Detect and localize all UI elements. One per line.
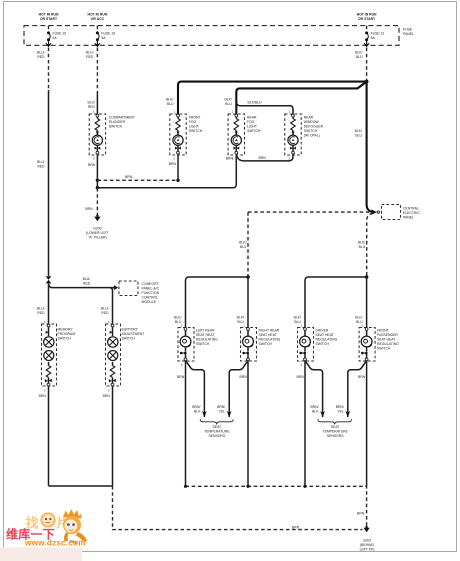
svg-text:SWITCH: SWITCH [304,129,318,133]
svg-text:LEFT KP): LEFT KP) [360,548,375,552]
svg-text:SWITCH: SWITCH [259,342,273,346]
svg-text:FRONT: FRONT [189,116,201,120]
svg-text:BRN: BRN [88,163,96,167]
svg-text:BRN: BRN [240,375,248,379]
svg-text:BLU/: BLU/ [87,100,95,104]
svg-text:REAR: REAR [247,116,257,120]
svg-text:REGULATING: REGULATING [377,342,399,346]
svg-text:FUSE 15: FUSE 15 [101,31,115,35]
svg-text:LEFT REAR: LEFT REAR [196,328,215,332]
svg-text:G202: G202 [363,539,371,543]
svg-text:RED: RED [37,55,45,59]
svg-text:BLU/: BLU/ [37,51,45,55]
svg-text:BLK/: BLK/ [237,315,244,319]
svg-text:REGULATING: REGULATING [316,337,338,341]
svg-text:HOT IN RUN: HOT IN RUN [88,13,108,17]
svg-text:RIGHT REAR: RIGHT REAR [259,328,280,332]
svg-text:BRN: BRN [125,175,133,179]
svg-text:PANEL: PANEL [403,216,414,220]
svg-text:BLK/: BLK/ [174,315,181,319]
svg-text:BRN/: BRN/ [192,405,200,409]
svg-text:5A: 5A [371,36,376,40]
svg-text:HOT IN RUN: HOT IN RUN [357,13,377,17]
svg-text:FUSE 16: FUSE 16 [53,31,67,35]
svg-text:BRN: BRN [358,375,366,379]
svg-text:COMFORT: COMFORT [142,282,159,286]
svg-text:BRN: BRN [297,375,305,379]
svg-text:BRN: BRN [292,525,300,529]
svg-text:BLU: BLU [356,320,363,324]
svg-text:BLU: BLU [237,320,244,324]
svg-text:www.dzsc.com: www.dzsc.com [24,539,86,548]
svg-text:BLU: BLU [294,320,301,324]
svg-text:BLK/: BLK/ [166,97,173,101]
svg-text:ADJUSTMENT: ADJUSTMENT [122,332,145,336]
svg-text:FUSE 21: FUSE 21 [371,31,385,35]
svg-text:BLK/: BLK/ [355,51,362,55]
svg-text:G200: G200 [93,226,101,230]
svg-text:SEAT HEAT: SEAT HEAT [259,333,277,337]
svg-text:BRN: BRN [259,156,267,160]
svg-text:BRN: BRN [39,394,47,398]
svg-text:BLK: BLK [312,409,319,413]
svg-text:PROGRAM: PROGRAM [58,332,76,336]
svg-text:PANEL-A/C: PANEL-A/C [142,287,160,291]
svg-text:WINDOW: WINDOW [304,120,320,124]
svg-text:SEAT HEAT: SEAT HEAT [316,333,334,337]
svg-text:FUNCTION: FUNCTION [142,291,160,295]
svg-text:BLU/: BLU/ [37,306,45,310]
svg-text:SWITCH: SWITCH [377,346,391,350]
svg-text:BLU: BLU [356,55,363,59]
svg-text:BRN: BRN [226,157,234,161]
svg-text:BLU: BLU [175,320,182,324]
svg-text:BLU/: BLU/ [101,306,109,310]
svg-text:BLK/: BLK/ [239,240,246,244]
svg-text:OR START: OR START [40,17,58,21]
svg-text:"A" PILLAR): "A" PILLAR) [88,235,106,239]
svg-text:HOT IN RUN: HOT IN RUN [39,13,59,17]
svg-text:SEAT HEAT: SEAT HEAT [196,333,214,337]
svg-text:SWITCH: SWITCH [316,342,330,346]
svg-text:FOG: FOG [189,120,197,124]
svg-text:BLK/: BLK/ [355,315,362,319]
svg-text:BLK: BLK [194,409,201,413]
svg-text:MEMORY: MEMORY [58,328,74,332]
svg-text:5A: 5A [101,36,106,40]
svg-text:TEMPERATURE: TEMPERATURE [323,430,349,434]
svg-text:CENTRAL: CENTRAL [403,207,419,211]
svg-text:BLK/: BLK/ [224,97,231,101]
svg-text:OR START: OR START [358,17,376,21]
svg-text:FOG: FOG [247,120,255,124]
svg-text:SUPPORT: SUPPORT [122,328,138,332]
svg-text:BLK/: BLK/ [358,240,365,244]
svg-text:SEAT HEAT: SEAT HEAT [377,337,395,341]
svg-text:BLK/: BLK/ [294,315,301,319]
svg-text:FRONT: FRONT [377,328,389,332]
svg-text:BRN: BRN [177,375,185,379]
svg-text:FUSE: FUSE [403,27,413,31]
svg-text:BRN: BRN [103,394,111,398]
svg-text:RED: RED [37,311,45,315]
svg-text:SWITCH: SWITCH [58,337,72,341]
svg-text:BRN: BRN [169,162,177,166]
svg-text:RED: RED [88,105,96,109]
svg-text:PLUNGER: PLUNGER [109,120,126,124]
svg-text:BLU: BLU [240,245,247,249]
svg-text:BLK/BLU: BLK/BLU [248,101,262,105]
svg-text:LIGHT: LIGHT [189,125,199,129]
svg-text:TEMPERATURE: TEMPERATURE [204,430,230,434]
svg-text:MODULE: MODULE [142,300,157,304]
svg-text:(LOWER LEFT: (LOWER LEFT [86,231,109,235]
svg-text:BRN/: BRN/ [336,405,344,409]
svg-text:YEL: YEL [219,409,226,413]
svg-text:YEL: YEL [337,409,344,413]
svg-text:BLU/: BLU/ [86,51,94,55]
svg-text:BLU: BLU [359,245,366,249]
svg-text:BLU: BLU [355,133,362,137]
svg-text:SWITCH: SWITCH [189,129,203,133]
svg-text:REGULATING: REGULATING [196,337,218,341]
svg-text:SENSORS: SENSORS [327,434,344,438]
svg-text:RED: RED [86,55,94,59]
svg-text:BLU: BLU [225,102,232,106]
svg-text:BLK/: BLK/ [355,129,362,133]
svg-text:COMPARTMENT: COMPARTMENT [109,116,135,120]
svg-text:PASSENGER: PASSENGER [377,333,398,337]
svg-text:(W/ OPAL): (W/ OPAL) [304,134,320,138]
svg-text:SWITCH: SWITCH [122,337,136,341]
svg-text:SWITCH: SWITCH [247,129,261,133]
svg-text:RED: RED [37,165,45,169]
svg-text:RED: RED [83,282,91,286]
svg-text:(BEHIND: (BEHIND [360,543,374,547]
svg-text:SWITCH: SWITCH [109,125,123,129]
svg-text:SEAT: SEAT [212,425,221,429]
svg-text:BRN/: BRN/ [217,405,225,409]
svg-text:SWITCH: SWITCH [196,342,210,346]
svg-text:5A: 5A [53,36,58,40]
svg-text:PANEL: PANEL [403,32,414,36]
svg-text:OR ACC: OR ACC [91,17,105,21]
svg-text:DEFOGGER: DEFOGGER [304,125,324,129]
svg-text:BRN: BRN [357,511,365,515]
svg-text:SEAT: SEAT [331,425,340,429]
svg-text:BLU: BLU [167,102,174,106]
svg-text:BLU/: BLU/ [37,160,45,164]
svg-text:BLU/: BLU/ [83,277,91,281]
svg-text:RED: RED [101,311,109,315]
svg-text:REAR: REAR [304,116,314,120]
svg-text:BRN: BRN [85,207,93,211]
svg-text:ELECTRIC: ELECTRIC [403,211,420,215]
svg-text:BRN/: BRN/ [310,405,318,409]
svg-text:SENSORS: SENSORS [209,434,226,438]
svg-text:LIGHT: LIGHT [247,125,257,129]
svg-text:CONTROL: CONTROL [142,296,159,300]
svg-text:REGULATING: REGULATING [259,337,281,341]
svg-text:DRIVER: DRIVER [316,328,329,332]
